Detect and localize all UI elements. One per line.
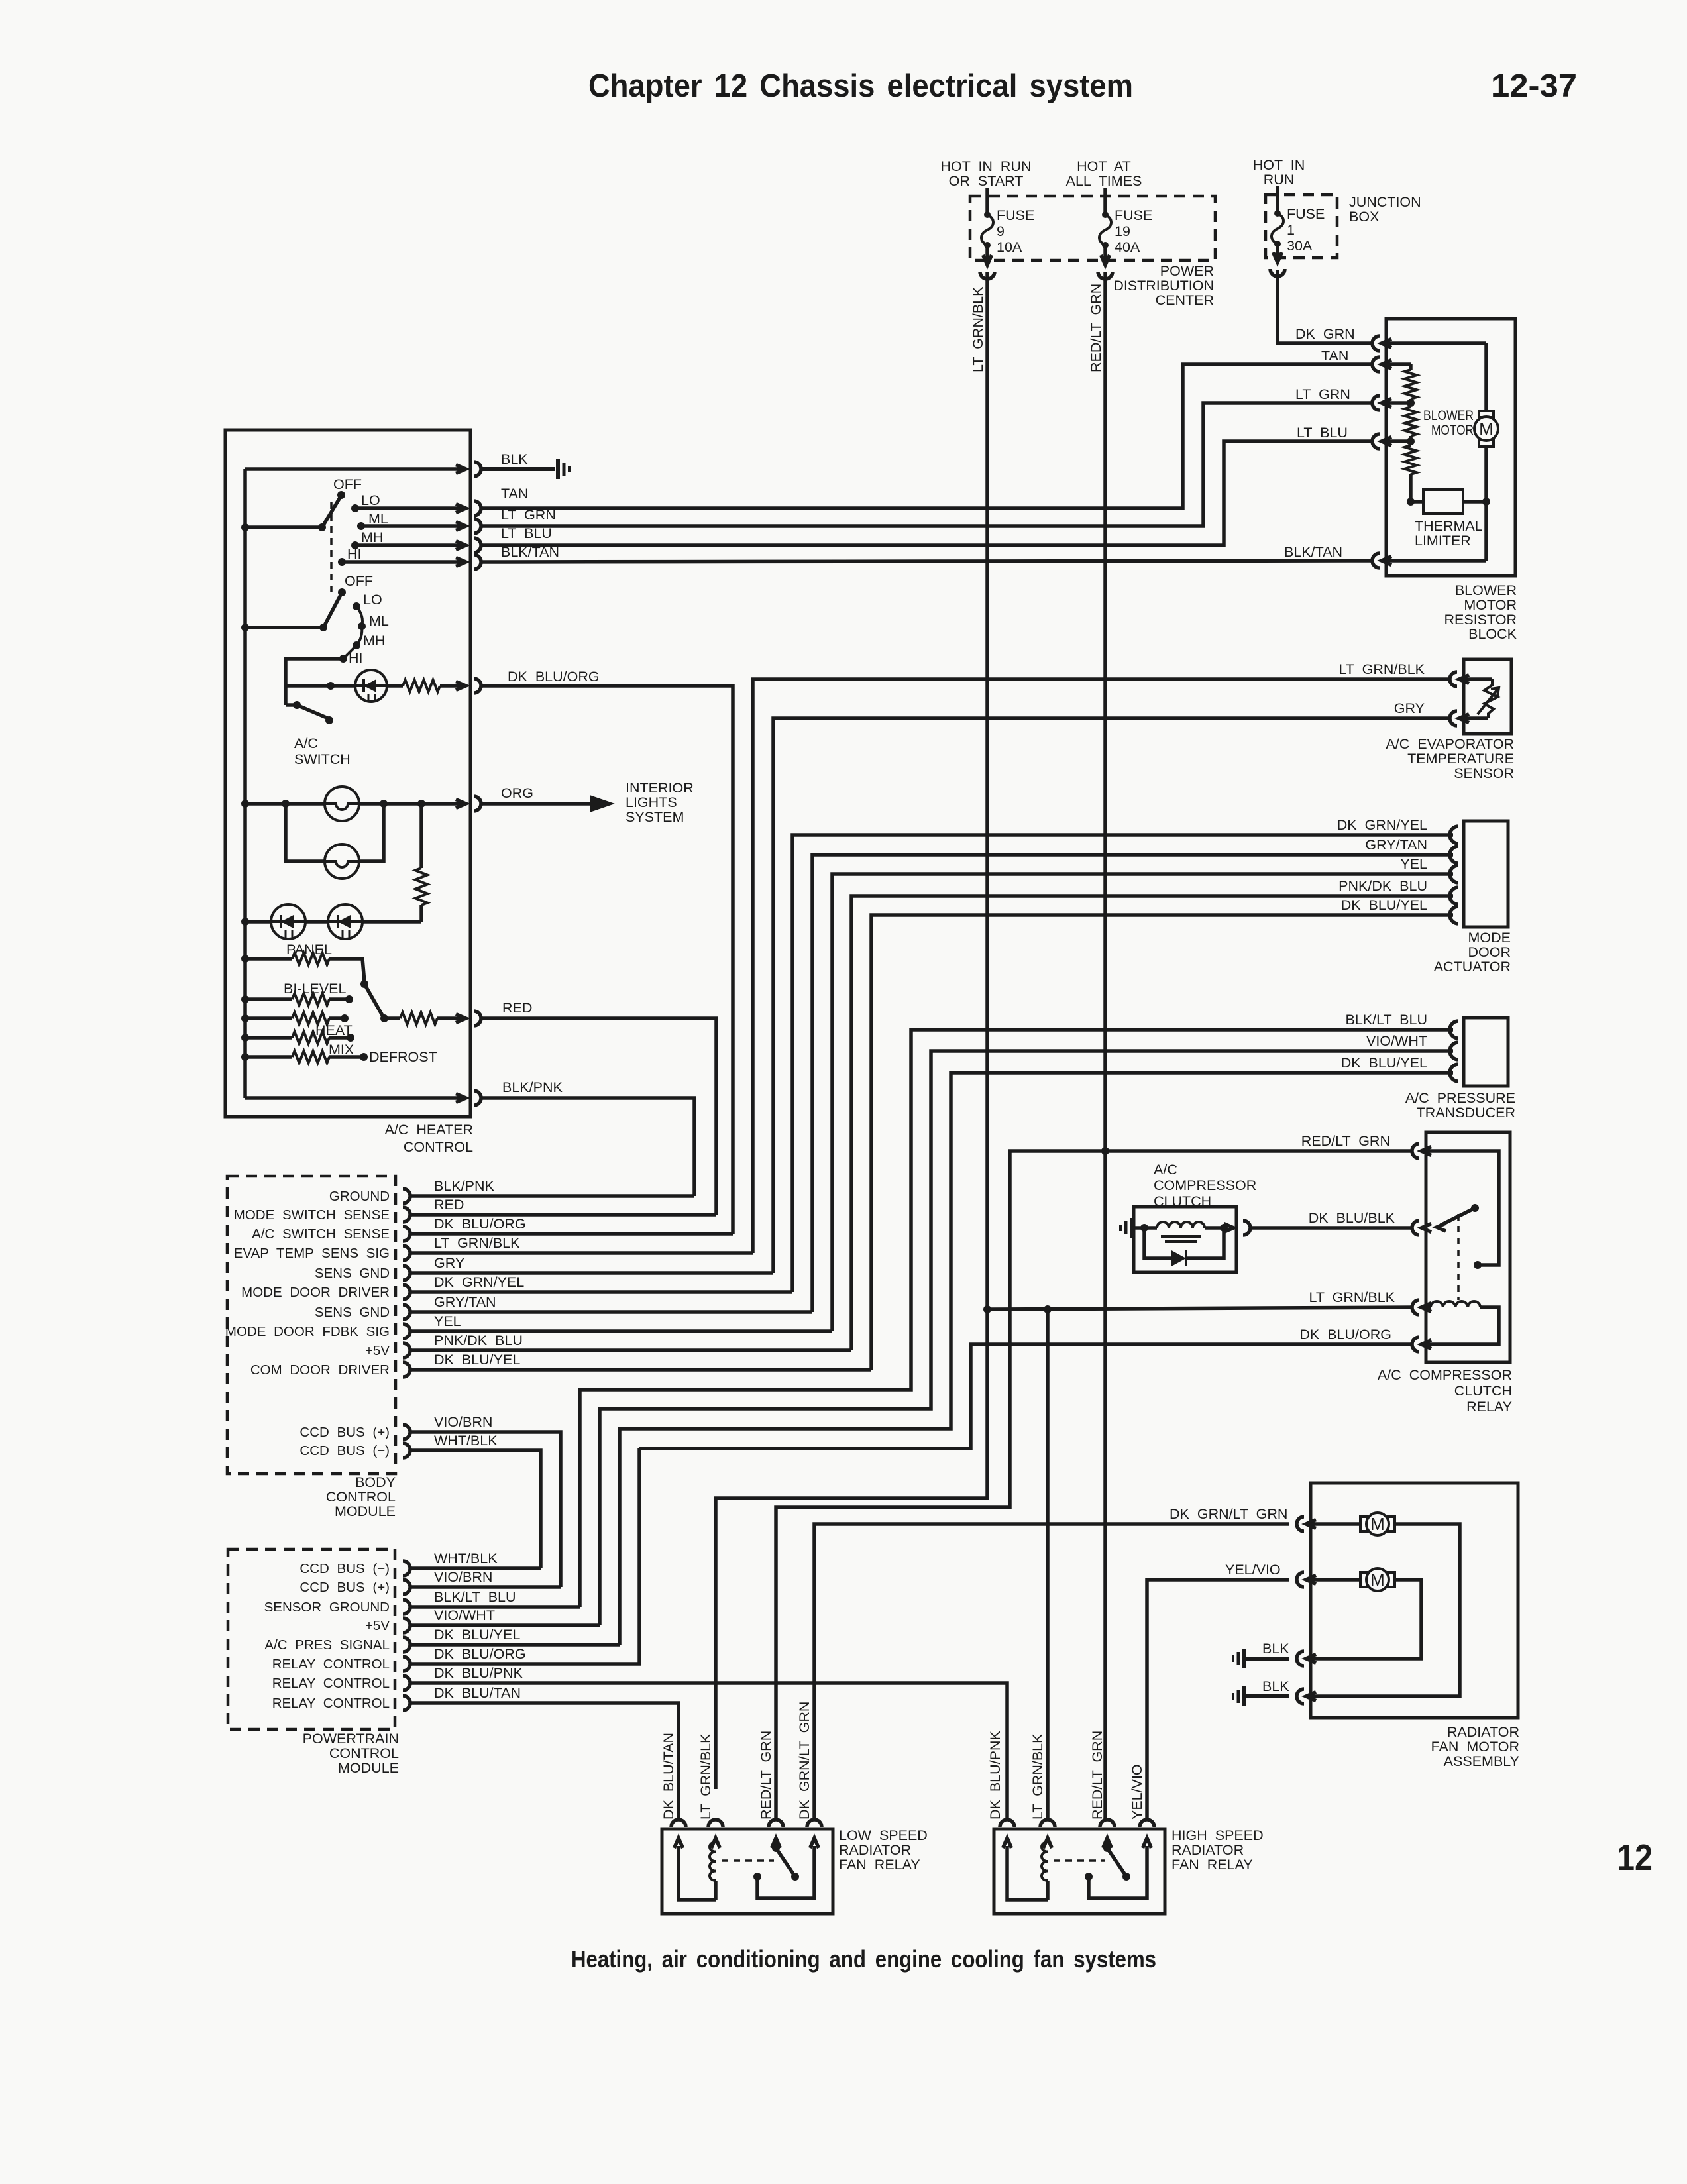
svg-text:TAN: TAN: [1321, 348, 1348, 364]
svg-text:RED/LT GRN: RED/LT GRN: [1301, 1133, 1390, 1149]
svg-text:BLK/LT BLU: BLK/LT BLU: [434, 1589, 516, 1605]
label LT BLU (right): [1297, 425, 1348, 441]
svg-text:MODULE: MODULE: [338, 1760, 399, 1776]
wire ORG row: [241, 800, 465, 808]
svg-text:HOT IN: HOT IN: [1253, 157, 1305, 173]
wire DK GRN/YEL from BCM: [409, 1274, 792, 1292]
svg-text:RED/LT GRN: RED/LT GRN: [758, 1731, 774, 1820]
radiator fan motor assembly box: [1311, 1483, 1518, 1718]
PCM pin RELAY CONTROL (DK BLU/PNK): [272, 1676, 410, 1691]
wire BLK/TAN inside block: [1386, 502, 1486, 561]
svg-text:CONTROL: CONTROL: [326, 1489, 396, 1505]
junction box dashed box: [1266, 195, 1337, 258]
high relay coil circuit: [1007, 1839, 1048, 1900]
svg-text:RELAY CONTROL: RELAY CONTROL: [272, 1676, 390, 1691]
svg-text:M: M: [1370, 1570, 1385, 1590]
caption: [571, 1945, 1156, 1973]
mode switch MIX row: [241, 1032, 354, 1058]
svg-text:PNK/DK BLU: PNK/DK BLU: [1338, 878, 1427, 894]
wire DK BLU/BLK clutch to relay: [1249, 1226, 1413, 1230]
svg-text:COM DOOR DRIVER: COM DOOR DRIVER: [250, 1362, 390, 1378]
label A/C COMPRESSOR CLUTCH: [1154, 1162, 1256, 1209]
label BLOWER MOTOR RESISTOR BLOCK: [1444, 582, 1517, 642]
svg-text:LO: LO: [361, 492, 380, 508]
svg-text:RESISTOR: RESISTOR: [1444, 612, 1517, 628]
PCM pin +5V (VIO/WHT): [365, 1618, 410, 1633]
svg-text:COMPRESSOR: COMPRESSOR: [1154, 1177, 1256, 1193]
ground (BLK): [558, 459, 569, 479]
panel lamp 1: [325, 787, 359, 821]
svg-text:LT BLU: LT BLU: [1297, 425, 1348, 441]
svg-text:CONTROL: CONTROL: [404, 1139, 473, 1155]
svg-text:DK BLU/ORG: DK BLU/ORG: [1299, 1327, 1391, 1342]
fan switch 1 LO contact / wire TAN: [351, 492, 481, 516]
label BODY CONTROL MODULE: [326, 1474, 396, 1519]
body control module dashed box: [227, 1176, 396, 1474]
wire WHT/BLK from BCM: [409, 1433, 541, 1568]
svg-text:BLK/TAN: BLK/TAN: [1284, 544, 1342, 560]
svg-text:DK BLU/YEL: DK BLU/YEL: [1341, 1055, 1427, 1071]
svg-text:ALL TIMES: ALL TIMES: [1066, 173, 1142, 189]
vertical label YEL/VIO: [1129, 1764, 1145, 1820]
blower motor M: [1474, 343, 1498, 506]
svg-text:Chapter 12 Chassis electrical: Chapter 12 Chassis electrical system: [588, 68, 1133, 104]
svg-text:HI: HI: [347, 546, 362, 562]
svg-text:VIO/WHT: VIO/WHT: [434, 1608, 495, 1623]
svg-text:RELAY CONTROL: RELAY CONTROL: [272, 1657, 390, 1672]
svg-text:1: 1: [1287, 222, 1295, 238]
wire DK GRN from junction box fuse 1: [1278, 270, 1373, 343]
label BLK/TAN (left): [501, 544, 559, 560]
power distribution center dashed box: [970, 196, 1215, 260]
connector BLK entry (fan lower): [1262, 1678, 1316, 1704]
fan switch 2 pivot: [241, 595, 341, 631]
connector ORG exit: [456, 785, 533, 811]
wire PNK/DK BLU to mode door actuator: [851, 896, 1453, 1350]
svg-text:CLUTCH: CLUTCH: [1154, 1193, 1211, 1209]
svg-text:DK GRN/LT GRN: DK GRN/LT GRN: [1170, 1506, 1287, 1522]
svg-text:INTERIOR: INTERIOR: [626, 780, 694, 796]
blower motor resistor block box: [1386, 319, 1515, 576]
svg-text:BLK/LT BLU: BLK/LT BLU: [1345, 1012, 1427, 1028]
svg-text:LT GRN/BLK: LT GRN/BLK: [434, 1235, 520, 1251]
svg-text:BLOWER: BLOWER: [1455, 582, 1517, 598]
connector DK BLU/ORG exit: [456, 669, 600, 693]
wire YEL from BCM: [409, 1313, 832, 1331]
svg-text:SWITCH: SWITCH: [294, 751, 351, 767]
label HOT AT ALL TIMES: [1066, 158, 1142, 189]
wire LT GRN/BLK to evaporator sensor: [753, 679, 1450, 1253]
low relay coil circuit: [679, 1839, 716, 1900]
svg-text:ASSEMBLY: ASSEMBLY: [1444, 1753, 1519, 1769]
mode switch PANEL row with resistor: [241, 942, 364, 982]
svg-text:VIO/BRN: VIO/BRN: [434, 1414, 492, 1430]
panel lamp 2: [325, 844, 359, 879]
svg-text:RED: RED: [434, 1197, 464, 1213]
fan switch 1 ML contact / wire LT GRN: [357, 511, 481, 533]
wire ORG arrow to interior lights: [482, 795, 615, 812]
svg-text:BLK/PNK: BLK/PNK: [434, 1178, 494, 1194]
svg-text:10A: 10A: [997, 239, 1022, 255]
relay column entry x1171: [769, 1820, 783, 1848]
pilot LED row: [241, 918, 272, 926]
svg-text:YEL: YEL: [434, 1313, 461, 1329]
wire LT GRN/BLK branch to low speed relay: [716, 1309, 987, 1789]
svg-text:GROUND: GROUND: [329, 1189, 390, 1204]
high relay link dashed: [1054, 1859, 1105, 1862]
svg-text:EVAP TEMP SENS SIG: EVAP TEMP SENS SIG: [234, 1246, 390, 1261]
label A/C COMPRESSOR CLUTCH RELAY: [1378, 1367, 1512, 1415]
svg-text:VIO/BRN: VIO/BRN: [434, 1569, 492, 1585]
vertical label RED/LT GRN: [1088, 284, 1104, 372]
svg-text:OFF: OFF: [333, 476, 362, 492]
svg-text:DK BLU/TAN: DK BLU/TAN: [661, 1733, 677, 1820]
svg-text:LO: LO: [363, 592, 382, 608]
wire HI to A/C switch: [286, 659, 343, 705]
svg-text:DK GRN: DK GRN: [1295, 326, 1355, 342]
svg-text:DK BLU/ORG: DK BLU/ORG: [434, 1646, 526, 1662]
A/C pressure transducer box: [1464, 1018, 1508, 1086]
svg-text:MODE SWITCH SENSE: MODE SWITCH SENSE: [234, 1207, 390, 1223]
svg-text:PANEL: PANEL: [286, 942, 332, 957]
LED pilot 1: [271, 904, 305, 939]
label LOW SPEED RADIATOR FAN RELAY: [839, 1828, 928, 1873]
svg-text:RED: RED: [502, 1000, 532, 1016]
connector RED exit: [456, 1000, 532, 1026]
wire TAN long: [482, 364, 1373, 508]
wire DK BLU/TAN from PCM to low speed relay: [409, 1703, 679, 1820]
connector DK BLU/YEL entry (transducer): [1341, 1055, 1458, 1081]
BCM pin SENS GND: [315, 1305, 410, 1320]
wire LT BLU long: [482, 441, 1373, 545]
wire WHT/BLK from PCM: [409, 1566, 541, 1570]
A/C heater control box: [225, 430, 470, 1117]
svg-text:POWERTRAIN: POWERTRAIN: [303, 1731, 399, 1747]
wire DK BLU/ORG from BCM: [409, 1216, 733, 1234]
svg-text:SENS GND: SENS GND: [315, 1266, 390, 1281]
svg-text:M: M: [1370, 1514, 1385, 1534]
wire DK BLU/YEL from BCM: [409, 1352, 871, 1370]
svg-text:GRY: GRY: [434, 1255, 464, 1271]
vertical label RED/LT GRN (high): [1089, 1731, 1105, 1820]
svg-text:FUSE: FUSE: [1287, 206, 1325, 222]
svg-text:DEFROST: DEFROST: [369, 1049, 437, 1065]
PCM pin A/C PRES SIGNAL (DK BLU/YEL): [264, 1637, 410, 1653]
A/C compressor clutch relay box: [1426, 1132, 1510, 1362]
low relay contact to DK GRN/LT GRN: [753, 1846, 814, 1898]
BCM pin SENS GND: [315, 1266, 410, 1281]
svg-text:DK BLU/PNK: DK BLU/PNK: [987, 1730, 1003, 1820]
clutch diode: [1144, 1228, 1224, 1266]
wire DK BLU/ORG row with LED and resistor: [286, 682, 355, 690]
svg-text:CCD BUS (−): CCD BUS (−): [299, 1561, 390, 1576]
svg-text:SYSTEM: SYSTEM: [626, 809, 684, 825]
svg-text:BI-LEVEL: BI-LEVEL: [284, 981, 346, 997]
label BLK/TAN (right): [1284, 544, 1342, 560]
svg-text:A/C HEATER: A/C HEATER: [385, 1122, 473, 1138]
LED (A/C indicator): [355, 670, 387, 702]
svg-text:DK BLU/BLK: DK BLU/BLK: [1309, 1210, 1395, 1226]
connector LT GRN/BLK entry (sensor): [1339, 661, 1469, 686]
control internal bus: [243, 469, 247, 1098]
connector DK GRN/YEL entry (actuator): [1337, 817, 1458, 844]
svg-text:CCD BUS (−): CCD BUS (−): [299, 1443, 390, 1458]
label HIGH SPEED RADIATOR FAN RELAY: [1171, 1828, 1264, 1873]
label HOT IN RUN: [1253, 157, 1305, 188]
wire PNK/DK BLU from BCM: [409, 1333, 851, 1350]
svg-text:BLK: BLK: [1262, 1678, 1289, 1694]
wire BLK/PNK row: [245, 1096, 464, 1100]
svg-text:A/C COMPRESSOR: A/C COMPRESSOR: [1378, 1367, 1512, 1383]
svg-text:YEL/VIO: YEL/VIO: [1225, 1562, 1281, 1578]
mode switch BI-LEVEL row: [241, 981, 353, 1005]
svg-text:LT GRN/BLK: LT GRN/BLK: [698, 1733, 714, 1820]
BCM pin +5V: [365, 1343, 410, 1358]
mode switch HEAT row: [241, 1012, 353, 1038]
connector RED/LT GRN entry (relay): [1301, 1133, 1431, 1158]
wire DK GRN/YEL to mode door actuator: [792, 835, 1453, 1292]
relay column entry x1520: [1000, 1820, 1014, 1848]
label A/C HEATER CONTROL: [385, 1122, 473, 1155]
wire DK GRN/LT GRN fan to low speed relay: [814, 1506, 1289, 1820]
wire RED from BCM: [409, 1197, 716, 1215]
svg-text:A/C PRESSURE: A/C PRESSURE: [1405, 1090, 1515, 1106]
connector BLK/LT BLU entry (transducer): [1345, 1012, 1458, 1038]
connector DK GRN entry: [1372, 336, 1391, 351]
svg-text:RELAY: RELAY: [1466, 1399, 1512, 1415]
wire YEL/VIO fan to high speed relay: [1147, 1562, 1289, 1820]
svg-text:WHT/BLK: WHT/BLK: [434, 1433, 498, 1448]
powertrain control module dashed box: [228, 1549, 395, 1729]
svg-text:GRY/TAN: GRY/TAN: [1365, 837, 1427, 853]
vertical label DK GRN/LT GRN: [796, 1702, 812, 1820]
wire VIO/WHT to transducer: [600, 1051, 1453, 1625]
svg-text:YEL/VIO: YEL/VIO: [1129, 1764, 1145, 1820]
label A/C EVAPORATOR TEMPERATURE SENSOR: [1386, 736, 1514, 781]
wire BLK to ground: [482, 467, 555, 471]
svg-text:POWER: POWER: [1160, 263, 1214, 279]
svg-text:DK BLU/YEL: DK BLU/YEL: [1341, 897, 1427, 913]
fuse 19 40A: [1099, 188, 1152, 260]
wire GRY/TAN from BCM: [409, 1294, 812, 1312]
connector TAN entry: [1372, 357, 1391, 372]
vertical label RED/LT GRN (low): [758, 1731, 774, 1820]
fan switch 1 pivot: [241, 498, 340, 531]
svg-text:CENTER: CENTER: [1156, 292, 1214, 308]
junction box exit connector fuse 1: [1270, 252, 1285, 276]
svg-text:MOTOR: MOTOR: [1464, 597, 1517, 613]
relay column entry x1581: [1040, 1820, 1055, 1848]
fan motor 1: [1311, 1513, 1460, 1696]
wire LT GRN/BLK vertical from fuse 9: [985, 272, 989, 1309]
svg-text:LT GRN/BLK: LT GRN/BLK: [1309, 1289, 1395, 1305]
svg-text:DISTRIBUTION: DISTRIBUTION: [1113, 278, 1214, 294]
svg-text:BOX: BOX: [1349, 209, 1379, 225]
connector DK BLU/ORG entry (relay): [1299, 1327, 1431, 1352]
connector DK GRN/LT GRN entry (fan): [1297, 1517, 1316, 1531]
label A/C SWITCH: [294, 736, 351, 767]
connector VIO/WHT entry (transducer): [1366, 1033, 1458, 1060]
vertical label DK BLU/TAN: [661, 1733, 677, 1820]
connector BLK/PNK exit: [456, 1079, 563, 1105]
svg-text:FUSE: FUSE: [997, 207, 1034, 223]
svg-text:THERMAL: THERMAL: [1415, 518, 1483, 534]
svg-text:MODE DOOR FDBK SIG: MODE DOOR FDBK SIG: [225, 1324, 390, 1339]
wire RED row with resistor: [380, 1012, 464, 1024]
A/C switch: [286, 701, 333, 724]
wire DK BLU/ORG row to relay: [639, 1344, 1413, 1448]
resistor branch (lamps): [415, 800, 427, 922]
page title: [588, 68, 1133, 104]
wire RED/LT GRN vertical from fuse 19: [1103, 272, 1107, 1820]
svg-text:TAN: TAN: [501, 486, 528, 502]
mode rotary switch arm: [360, 980, 383, 1016]
svg-text:ORG: ORG: [501, 785, 533, 801]
svg-text:LT GRN: LT GRN: [1295, 386, 1350, 402]
connector YEL/VIO entry (fan): [1297, 1572, 1316, 1587]
svg-text:40A: 40A: [1115, 239, 1140, 255]
wire RED/LT GRN row to relay: [1008, 1147, 1413, 1155]
svg-text:MH: MH: [361, 529, 383, 545]
label LT BLU (left): [501, 525, 552, 541]
page number 12-37: [1491, 68, 1577, 104]
svg-text:FUSE: FUSE: [1115, 207, 1152, 223]
BCM pin GROUND: [329, 1189, 410, 1204]
mode door actuator box: [1464, 821, 1508, 927]
svg-text:DK BLU/ORG: DK BLU/ORG: [434, 1216, 526, 1232]
wire BLK/PNK to BCM: [482, 1098, 694, 1196]
svg-text:9: 9: [997, 223, 1005, 239]
wire YEL to mode door actuator: [832, 874, 1453, 1331]
label TAN (right): [1321, 348, 1348, 364]
svg-text:CONTROL: CONTROL: [329, 1745, 399, 1761]
label INTERIOR LIGHTS SYSTEM: [626, 780, 694, 825]
wire GRY/TAN to mode door actuator: [812, 855, 1453, 1312]
relay column entry x1229: [807, 1820, 822, 1848]
A/C compressor clutch box: [1134, 1207, 1236, 1272]
svg-text:PNK/DK BLU: PNK/DK BLU: [434, 1333, 523, 1348]
vertical label LT GRN/BLK (low): [698, 1733, 714, 1820]
svg-text:WHT/BLK: WHT/BLK: [434, 1551, 498, 1566]
svg-text:DK GRN/YEL: DK GRN/YEL: [1337, 817, 1427, 833]
svg-text:A/C SWITCH SENSE: A/C SWITCH SENSE: [252, 1227, 390, 1242]
label LT GRN (left): [501, 507, 556, 523]
svg-text:DK BLU/PNK: DK BLU/PNK: [434, 1665, 523, 1681]
BCM pin A/C SWITCH SENSE: [252, 1227, 410, 1242]
svg-text:MODE DOOR DRIVER: MODE DOOR DRIVER: [241, 1285, 390, 1300]
svg-text:MODULE: MODULE: [335, 1503, 396, 1519]
svg-text:HOT AT: HOT AT: [1077, 158, 1131, 174]
svg-text:FAN MOTOR: FAN MOTOR: [1431, 1739, 1519, 1755]
connector LT GRN/BLK entry (relay): [1309, 1289, 1431, 1315]
svg-text:DK BLU/TAN: DK BLU/TAN: [434, 1685, 521, 1701]
wire VIO/BRN from PCM: [409, 1585, 561, 1589]
label HOT IN RUN OR START: [940, 158, 1031, 189]
svg-text:FAN RELAY: FAN RELAY: [1171, 1857, 1253, 1873]
BCM pin COM DOOR DRIVER: [250, 1362, 410, 1378]
connector GRY entry (sensor): [1394, 700, 1469, 726]
svg-text:ML: ML: [369, 613, 389, 629]
wire GRY from BCM: [409, 1255, 773, 1273]
svg-text:MODE: MODE: [1468, 930, 1511, 946]
svg-text:A/C: A/C: [294, 736, 318, 751]
LED pilot 2: [305, 904, 362, 939]
high speed radiator fan relay box: [994, 1829, 1165, 1914]
svg-text:BODY: BODY: [355, 1474, 396, 1490]
svg-text:RED/LT GRN: RED/LT GRN: [1088, 284, 1104, 372]
svg-text:GRY: GRY: [1394, 700, 1425, 716]
resistor chain in resistor block: [1386, 343, 1486, 506]
svg-text:DK BLU/YEL: DK BLU/YEL: [434, 1627, 520, 1643]
svg-text:GRY/TAN: GRY/TAN: [434, 1294, 496, 1310]
ground (fan upper BLK): [1233, 1649, 1289, 1668]
wire LED row to resistor: [362, 920, 421, 924]
connector LT GRN entry: [1372, 396, 1391, 410]
svg-text:VIO/WHT: VIO/WHT: [1366, 1033, 1427, 1049]
BCM pin MODE DOOR DRIVER: [241, 1285, 410, 1300]
connector YEL entry (actuator): [1400, 856, 1458, 883]
PCM pin CCD BUS (−) (WHT/BLK): [299, 1561, 410, 1576]
low speed radiator fan relay box: [662, 1829, 833, 1914]
svg-text:DK BLU/YEL: DK BLU/YEL: [434, 1352, 520, 1368]
high relay contact to YEL/VIO: [1085, 1846, 1147, 1898]
svg-text:DK GRN/LT GRN: DK GRN/LT GRN: [796, 1702, 812, 1820]
svg-text:ML: ML: [368, 511, 388, 527]
svg-text:JUNCTION: JUNCTION: [1349, 194, 1421, 210]
svg-text:LIMITER: LIMITER: [1415, 533, 1471, 549]
svg-text:OR START: OR START: [949, 173, 1024, 189]
vertical label LT GRN/BLK (high): [1030, 1733, 1046, 1820]
fan switch 2 contacts LO ML MH HI: [339, 592, 389, 666]
high relay switch: [1103, 1839, 1130, 1881]
BCM pin MODE DOOR FDBK SIG: [225, 1324, 410, 1339]
svg-text:BLK: BLK: [501, 451, 528, 467]
wire VIO/BRN from BCM: [409, 1414, 561, 1587]
svg-text:BLOCK: BLOCK: [1468, 626, 1517, 642]
fuse 9 10A: [981, 188, 1034, 260]
svg-text:A/C PRES SIGNAL: A/C PRES SIGNAL: [264, 1637, 390, 1653]
relay column entry x1024: [671, 1820, 686, 1848]
connector DK BLU/YEL entry (actuator): [1341, 897, 1458, 924]
svg-text:12-37: 12-37: [1491, 68, 1577, 104]
fan switch 1 MH contact / wire LT BLU: [351, 529, 481, 553]
chapter tab 12: [1617, 1837, 1653, 1878]
svg-text:TEMPERATURE: TEMPERATURE: [1407, 751, 1514, 767]
connector PNK/DK BLU entry (actuator): [1338, 878, 1458, 904]
svg-text:Heating, air conditioning and: Heating, air conditioning and engine coo…: [571, 1945, 1156, 1973]
relay column entry x1080: [708, 1820, 723, 1848]
fan motor 2: [1311, 1568, 1421, 1659]
connector GRY/TAN entry (actuator): [1365, 837, 1458, 863]
svg-text:+5V: +5V: [365, 1618, 390, 1633]
svg-text:BLK/PNK: BLK/PNK: [502, 1079, 563, 1095]
svg-text:LT GRN/BLK: LT GRN/BLK: [1030, 1733, 1046, 1820]
wire BLK/TAN long: [482, 561, 1373, 562]
svg-text:HIGH SPEED: HIGH SPEED: [1171, 1828, 1264, 1843]
PDC exit connector fuse 19: [1098, 255, 1113, 279]
label A/C PRESSURE TRANSDUCER: [1405, 1090, 1515, 1120]
wire VIO/WHT from PCM: [409, 1623, 600, 1627]
thermistor: [1464, 679, 1499, 718]
wire LT GRN/BLK row to relay: [983, 1305, 1413, 1313]
wire BLK/PNK from BCM: [409, 1178, 694, 1196]
svg-text:RED/LT GRN: RED/LT GRN: [1089, 1731, 1105, 1820]
connector LT BLU entry: [1372, 434, 1391, 449]
wire DK BLU/ORG to BCM: [482, 686, 733, 1234]
svg-text:LT GRN/BLK: LT GRN/BLK: [970, 286, 986, 372]
fan switch 2 OFF: [338, 573, 373, 596]
svg-text:12: 12: [1617, 1837, 1653, 1878]
